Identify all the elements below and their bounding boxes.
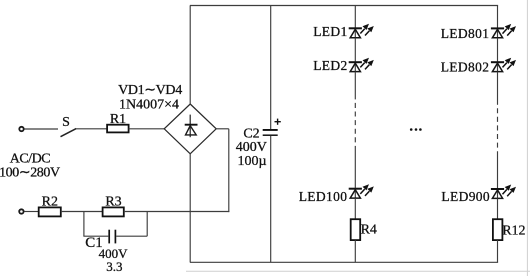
scan artifact: faint bottom line [186, 270, 530, 272]
scan artifact: faint right border [526, 0, 528, 276]
LED1 [349, 24, 374, 38]
svg-text:3.3: 3.3 [106, 259, 122, 274]
terminal (top AC input) [19, 127, 23, 131]
wire: R12 to bottom rail [497, 240, 499, 262]
wire: LED1 to LED2 [354, 38, 356, 62]
svg-text:LED2: LED2 [313, 58, 347, 73]
capacitor C2 (polarized) [263, 129, 278, 135]
svg-text:R2: R2 [42, 194, 58, 209]
LED801 [491, 24, 516, 38]
wire: LED802 down [497, 72, 499, 105]
wire: C1 branch right rise [146, 212, 148, 237]
wire: R4 to bottom rail [354, 240, 356, 262]
wire: bottom input terminal to R2 [24, 211, 38, 213]
wire: R2 to R3 [61, 211, 103, 213]
wire: LED100 to R4 [354, 198, 356, 219]
wire: LED801 to LED802 [497, 38, 499, 62]
ellipsis dots (more strings) [410, 128, 422, 131]
bridge rectifier VD1~VD4 [164, 104, 216, 154]
resistor R2 [39, 207, 61, 216]
capacitor C1 [109, 230, 115, 244]
svg-text:R3: R3 [105, 194, 121, 209]
polarity mark + (C2) [275, 119, 281, 125]
wire: LED2 down [354, 72, 356, 100]
svg-text:400V: 400V [236, 140, 267, 155]
svg-text:AC/DC: AC/DC [10, 152, 50, 167]
svg-text:100∼280V: 100∼280V [0, 165, 60, 180]
svg-text:R1: R1 [110, 112, 126, 127]
svg-text:LED801: LED801 [441, 26, 490, 41]
svg-text:LED900: LED900 [441, 189, 490, 204]
svg-text:R12: R12 [502, 224, 525, 239]
wire: LED900 to R12 [497, 198, 499, 219]
wire: to LED100 [354, 148, 356, 188]
svg-text:LED100: LED100 [299, 189, 348, 204]
resistor R1 [107, 125, 129, 133]
wire: R3 to right AC leg [124, 211, 230, 213]
svg-text:VD1∼VD4: VD1∼VD4 [118, 83, 182, 98]
terminal (bottom AC input) [19, 209, 23, 213]
wire: to LED900 [497, 153, 499, 188]
wire: top rail down to C2 [270, 6, 272, 130]
svg-text:100µ: 100µ [237, 154, 266, 169]
wire: dashed continuation (string 1) [354, 103, 356, 148]
svg-text:1N4007×4: 1N4007×4 [119, 98, 179, 113]
svg-text:R4: R4 [361, 223, 377, 238]
wire: C1 branch bottom right [116, 235, 147, 237]
wire: C2 down to bottom rail [270, 136, 272, 262]
wire: top rail to LED1 [354, 6, 356, 28]
wire: top rail to LED801 [497, 6, 499, 28]
switch S [61, 129, 77, 137]
wire: dashed continuation (string 2) [497, 108, 499, 153]
wire: right AC leg down to R3 net [228, 129, 230, 212]
LED802 [491, 58, 516, 72]
wire: R1 to bridge AC input (left vertex) [129, 128, 165, 130]
resistor R3 [103, 207, 124, 216]
wire: switch to R1 [76, 128, 107, 130]
LED100 [349, 184, 374, 198]
wire: top input terminal to switch [24, 128, 58, 130]
LED2 [349, 58, 374, 72]
resistor R12 [493, 219, 503, 240]
wire: bottom rail (- bus) [190, 261, 498, 263]
wire: bridge - output down to bottom rail [189, 153, 191, 262]
wire: C1 branch bottom left [83, 235, 108, 237]
svg-text:S: S [62, 115, 70, 130]
wire: top rail (+ bus) [190, 5, 498, 7]
wire: bridge + output up to top rail [189, 6, 191, 105]
wire: C1 branch left drop [83, 212, 85, 237]
wire: bridge AC input (right vertex) horizontal stub [216, 128, 229, 130]
LED900 [491, 185, 516, 199]
svg-text:LED1: LED1 [313, 24, 347, 39]
resistor R4 [351, 219, 361, 240]
svg-text:LED802: LED802 [441, 59, 490, 74]
